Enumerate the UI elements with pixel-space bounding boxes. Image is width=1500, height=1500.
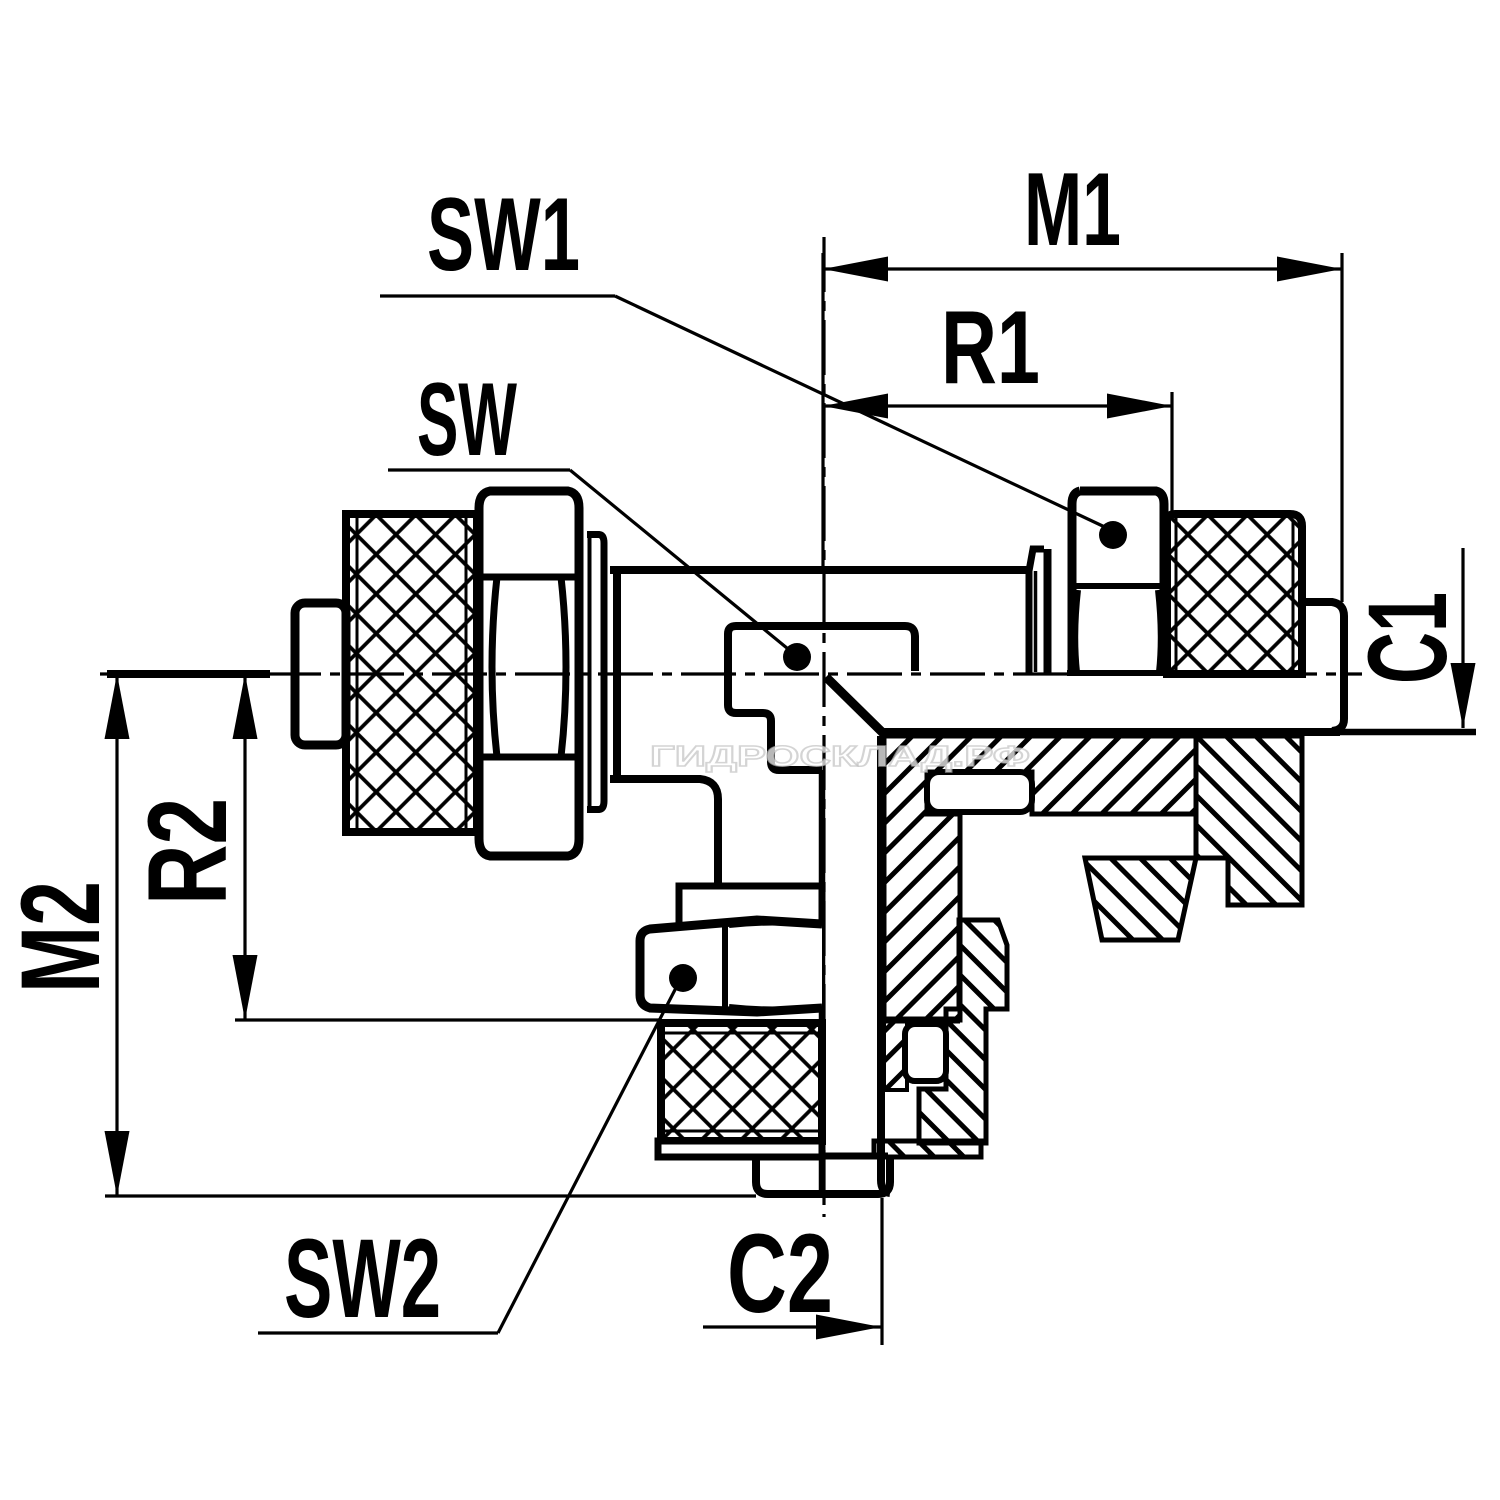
svg-text:ГИДРОСКЛАД.РФ: ГИДРОСКЛАД.РФ <box>650 741 1030 773</box>
right branch lower surface line <box>884 728 1340 736</box>
C1 <box>1461 548 1464 728</box>
bottom hex nut (left half) <box>640 920 822 1012</box>
right knurl (upper half) <box>1167 514 1302 674</box>
body step outline <box>728 626 915 770</box>
left hex nut <box>479 491 579 856</box>
M2 <box>115 674 118 1196</box>
SW1 leader <box>380 294 615 297</box>
SW leader <box>388 468 570 471</box>
hatched right ferrule section <box>1085 858 1196 940</box>
R2 <box>243 674 246 1020</box>
right stub <box>1302 602 1344 731</box>
left cone washer <box>587 535 604 810</box>
svg-text:SW: SW <box>417 362 517 478</box>
bottom stub <box>820 1153 888 1160</box>
left stub <box>295 603 346 745</box>
svg-text:R1: R1 <box>941 290 1040 406</box>
bottom knurl <box>661 1023 822 1141</box>
C2 <box>703 1325 881 1328</box>
washer <box>1029 549 1044 674</box>
svg-text:SW2: SW2 <box>284 1216 441 1341</box>
M1 <box>823 267 1342 270</box>
hatched bottom cap section <box>874 1141 981 1157</box>
hatch sliver left of bottom notch <box>884 1020 907 1090</box>
right hex nut (upper half) <box>1072 491 1164 672</box>
white notch in bottom strip <box>905 1024 946 1081</box>
body left edge <box>613 567 621 779</box>
svg-text:SW1: SW1 <box>427 177 580 293</box>
nut/knurl bottom edge on centerline <box>1067 670 1302 676</box>
section edge line of bottom branch <box>819 770 826 1190</box>
left knurl <box>346 514 477 832</box>
hatched body section: right branch band + bottom branch wall strip <box>884 736 1196 1020</box>
svg-text:C2: C2 <box>727 1211 833 1336</box>
svg-text:C1: C1 <box>1345 592 1470 684</box>
hatched bottom nut section <box>919 920 1007 1143</box>
R1 <box>823 404 1172 407</box>
chamfer diagonal at T junction <box>826 677 885 735</box>
svg-text:R2: R2 <box>125 798 250 905</box>
hatched right nut section <box>1196 736 1302 905</box>
ring <box>679 886 822 926</box>
SW2 leader <box>258 1331 498 1334</box>
svg-text:M1: M1 <box>1024 152 1121 268</box>
svg-text:M2: M2 <box>0 881 123 993</box>
body bottom line + corner into branch tube <box>610 779 718 884</box>
body top line <box>610 566 1028 574</box>
bottom cap <box>658 1141 822 1157</box>
white notch in right band <box>927 772 1032 812</box>
bottom branch outer wall line <box>881 736 890 1193</box>
